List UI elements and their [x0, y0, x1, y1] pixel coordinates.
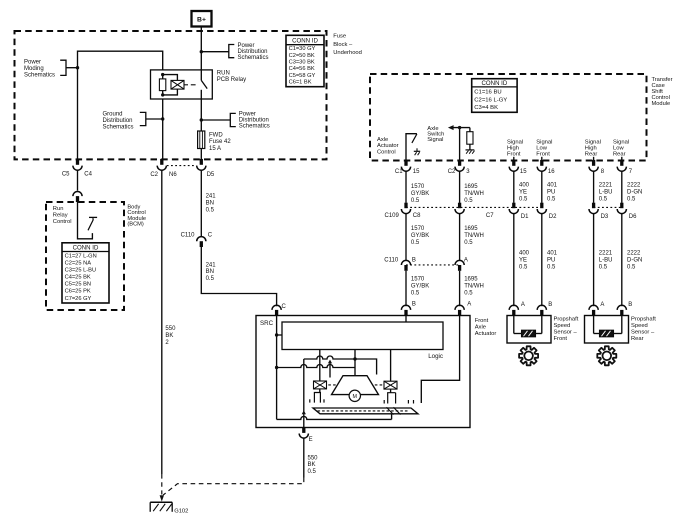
svg-text:1570: 1570	[411, 184, 425, 190]
label Signal Low Rear	[613, 140, 629, 158]
svg-text:Sensor –: Sensor –	[631, 330, 655, 336]
svg-text:0.5: 0.5	[411, 240, 420, 246]
contact stationary left pair	[310, 399, 324, 402]
svg-text:401: 401	[547, 251, 558, 257]
connector BCM entry	[73, 192, 82, 202]
position indicator bar contact track (dashed)	[318, 410, 410, 412]
fuse block - underhood dashed enclosure	[15, 31, 327, 159]
wire bar right segment to C return	[391, 414, 393, 420]
svg-text:B: B	[412, 302, 416, 308]
svg-text:Distribution: Distribution	[103, 118, 133, 124]
svg-text:1695: 1695	[464, 277, 478, 283]
svg-text:B: B	[412, 257, 416, 263]
connector C110 cavity A	[455, 257, 468, 270]
gear reluctor rear	[597, 346, 616, 365]
motor housing trapezoid	[332, 376, 379, 395]
svg-text:Speed: Speed	[554, 323, 571, 329]
svg-text:BK: BK	[308, 462, 316, 468]
coil relay winding (crossed box) with parallel branch	[163, 75, 184, 95]
switch contact right (movable)	[388, 393, 396, 404]
wire axle switch signal with arrow	[448, 125, 470, 160]
wire 1570 GY/BK segment 3	[405, 271, 407, 306]
wire 241 BN from D5	[200, 171, 202, 237]
svg-text:Rear: Rear	[613, 152, 626, 158]
wire position sensor wiper arm	[328, 360, 332, 378]
svg-text:0.5: 0.5	[547, 197, 556, 203]
label Front Axle Actuator	[475, 318, 497, 337]
wire 2222 D-GN segment 1	[621, 172, 623, 203]
connector D1 inline	[509, 203, 529, 220]
svg-text:BK: BK	[165, 333, 173, 339]
label Signal Low Front	[536, 140, 552, 158]
connector C110 cavity C	[181, 233, 213, 247]
node junction B+ / power distribution 1	[200, 50, 203, 53]
svg-text:Moding: Moding	[24, 66, 44, 72]
label wire 550 BK 2	[165, 326, 176, 346]
svg-text:B: B	[628, 302, 632, 308]
svg-text:C2=16 L-GY: C2=16 L-GY	[474, 97, 507, 103]
svg-text:C: C	[208, 233, 213, 239]
svg-text:C1=27 L-GN: C1=27 L-GN	[65, 253, 97, 259]
svg-text:D-GN: D-GN	[627, 190, 642, 196]
connector B front axle actuator	[401, 302, 416, 316]
svg-text:C2: C2	[150, 172, 158, 178]
relay coil feed junction top	[161, 73, 164, 76]
svg-text:D5: D5	[207, 172, 215, 178]
mechanical link right coil (dashed)	[375, 384, 383, 386]
label Axle Actuator Control	[377, 137, 399, 156]
svg-text:TN/WH: TN/WH	[464, 284, 484, 290]
coil left solenoid (crossed box)	[314, 381, 327, 389]
mechanical link coil to switch (dashed)	[184, 84, 196, 86]
svg-text:Front: Front	[475, 318, 489, 324]
svg-text:C3=30 BK: C3=30 BK	[289, 60, 315, 66]
contact stationary far right pair	[408, 400, 413, 404]
label wire 1570 GY/BK 0.5 (3)	[411, 277, 429, 297]
label Transfer Case Shift Control Module	[652, 77, 673, 107]
wire B stub to logic	[405, 316, 407, 323]
wire 241 BN to front axle actuator	[201, 247, 276, 306]
svg-text:L-BU: L-BU	[599, 190, 613, 196]
svg-text:Schematics: Schematics	[238, 55, 269, 61]
svg-text:Relay: Relay	[53, 212, 68, 218]
wire C internal vertical	[276, 316, 278, 420]
svg-text:0.5: 0.5	[464, 291, 473, 297]
wire 550 BK from E	[163, 438, 304, 495]
svg-text:241: 241	[206, 262, 217, 268]
connector D5 fuse block	[197, 159, 215, 178]
svg-text:400: 400	[519, 251, 530, 257]
wire right coil to contact	[390, 389, 392, 393]
svg-text:400: 400	[519, 183, 530, 189]
svg-text:C5: C5	[62, 172, 70, 178]
svg-text:C7=26 GY: C7=26 GY	[65, 296, 92, 302]
svg-text:FWD: FWD	[209, 133, 223, 139]
svg-text:Module: Module	[652, 101, 671, 107]
wire 1695 TN/WH segment 3	[459, 271, 461, 306]
wire left coil to contact	[319, 389, 321, 393]
svg-text:C1=30 GY: C1=30 GY	[289, 46, 316, 52]
label wire 2222 D-GN 0.5 (2)	[627, 251, 642, 271]
connector C5/C4 fuse block to BCM	[62, 159, 93, 178]
svg-text:Fuse: Fuse	[333, 34, 346, 40]
node junction center output / line A	[353, 357, 356, 360]
wire stub signal high front	[513, 157, 515, 160]
svg-text:L-BU: L-BU	[599, 258, 613, 264]
svg-text:0.5: 0.5	[627, 197, 636, 203]
svg-text:Rear: Rear	[585, 152, 598, 158]
svg-text:550: 550	[165, 326, 176, 332]
mechanical link left coil (dashed)	[328, 384, 337, 386]
svg-text:C110: C110	[384, 257, 399, 263]
connector C front axle actuator	[272, 304, 287, 316]
svg-text:Ground: Ground	[103, 112, 123, 118]
wire 550 BK 2 (C2/N6 to G102)	[161, 171, 163, 495]
label wire 2221 L-BU 0.5 (1)	[599, 183, 613, 203]
svg-text:TN/WH: TN/WH	[464, 233, 484, 239]
label wire 400 YE 0.5 (1)	[519, 183, 530, 203]
off-page reference Power Moding Schematics	[24, 60, 78, 79]
svg-text:Control: Control	[53, 219, 72, 225]
fuse FWD Fuse 42 15 A	[198, 99, 232, 159]
position indicator bar (parallelogram)	[313, 408, 418, 414]
svg-text:M: M	[353, 394, 358, 400]
wire C return bottom with crossover	[277, 416, 392, 419]
svg-text:B+: B+	[197, 17, 206, 24]
svg-text:Front: Front	[536, 152, 550, 158]
switch contact left (movable)	[314, 393, 320, 403]
wire 1695 TN/WH segment 2	[459, 213, 461, 260]
svg-text:E: E	[309, 437, 313, 443]
connector A front axle actuator	[455, 302, 471, 316]
off-page reference Ground Distribution Schematics	[103, 112, 163, 131]
switch axle actuator control driver	[406, 134, 420, 161]
wire stub signal high rear	[593, 157, 595, 160]
connector B propshaft front	[537, 302, 552, 316]
svg-text:1695: 1695	[464, 184, 478, 190]
svg-text:Propshaft: Propshaft	[554, 317, 579, 323]
svg-text:CONN ID: CONN ID	[73, 245, 99, 252]
wire logic output to right coil	[390, 350, 392, 382]
ground internal TCCM	[465, 150, 474, 154]
svg-text:0.5: 0.5	[206, 208, 215, 214]
svg-text:Power: Power	[24, 60, 41, 66]
svg-text:C4=25 BK: C4=25 BK	[65, 275, 91, 281]
connector C1 pin 15 TCCM	[395, 160, 420, 175]
svg-text:Schematics: Schematics	[24, 73, 55, 79]
svg-text:0.5: 0.5	[627, 264, 636, 270]
wire dotted link C110 row	[406, 264, 460, 266]
connector E front axle actuator	[299, 428, 312, 443]
wire dotted link N6 to D5	[167, 165, 197, 167]
wire 2222 D-GN segment 2	[621, 213, 623, 306]
off-page reference Power Distribution Schematics (top)	[201, 43, 268, 61]
svg-text:0.5: 0.5	[519, 197, 528, 203]
svg-text:2222: 2222	[627, 251, 641, 257]
svg-text:Axle: Axle	[475, 324, 486, 330]
svg-text:550: 550	[308, 455, 319, 461]
label wire 2221 L-BU 0.5 (2)	[599, 251, 613, 271]
node relay coil junction bottom	[161, 93, 164, 96]
svg-text:(BCM): (BCM)	[127, 221, 144, 227]
svg-text:2221: 2221	[599, 183, 613, 189]
svg-text:C7: C7	[486, 213, 494, 219]
svg-text:C2=25 NA: C2=25 NA	[65, 260, 92, 266]
label Axle Switch Signal	[427, 126, 444, 143]
svg-text:D1: D1	[521, 214, 529, 220]
node junction C wire to logic	[275, 333, 282, 336]
connector D6 inline	[617, 203, 637, 220]
label Signal High Front	[507, 140, 523, 158]
wire A internal path to position contact	[421, 316, 459, 404]
svg-text:BN: BN	[206, 269, 214, 275]
relay RUN PCB Relay outline	[151, 70, 247, 99]
svg-text:15: 15	[413, 169, 420, 175]
svg-text:CONN ID: CONN ID	[292, 38, 318, 45]
motor M front axle actuator	[349, 390, 360, 401]
resistor axle switch pull-up	[467, 128, 473, 150]
svg-text:241: 241	[206, 194, 217, 200]
resistor relay coil suppression	[159, 75, 165, 95]
wire 1570 GY/BK segment 1	[405, 172, 407, 203]
wire B+ vertical into relay switch	[200, 27, 202, 81]
svg-text:C4=56 BK: C4=56 BK	[289, 66, 315, 72]
connector B propshaft rear	[617, 302, 632, 316]
label wire 241 BN 0.5 (upper)	[206, 194, 217, 214]
svg-text:0.5: 0.5	[411, 198, 420, 204]
svg-text:1570: 1570	[411, 226, 425, 232]
wire 400 YE segment 1	[513, 172, 515, 203]
svg-text:15 A: 15 A	[209, 146, 221, 152]
node junction axle switch signal	[458, 126, 461, 129]
wire dotted link D3-D6 row	[594, 206, 622, 208]
svg-text:1695: 1695	[464, 226, 478, 232]
svg-text:C2: C2	[448, 169, 456, 175]
svg-text:0.5: 0.5	[519, 264, 528, 270]
node junction run-relay wire / power moding	[76, 66, 79, 69]
front axle actuator box	[256, 316, 470, 428]
wire run relay control loop (left vertical, top horizontal, down to relay coil)	[78, 51, 163, 159]
svg-text:PCB Relay: PCB Relay	[217, 77, 246, 83]
connector pin 16 TCCM	[537, 160, 555, 175]
connector pin 8 TCCM	[589, 160, 605, 175]
label wire 1695 TN/WH 0.5 (3)	[464, 277, 484, 297]
svg-text:GY/BK: GY/BK	[411, 191, 429, 197]
svg-text:C2=50 BK: C2=50 BK	[289, 53, 315, 59]
svg-text:N6: N6	[169, 172, 177, 178]
propshaft speed sensor front box	[507, 316, 551, 344]
label wire 401 PU 0.5 (2)	[547, 251, 558, 271]
svg-text:C4: C4	[84, 172, 92, 178]
coil pickup front sensor	[514, 316, 542, 337]
svg-text:0.5: 0.5	[411, 291, 420, 297]
connector C110 cavity B	[384, 257, 416, 270]
node junction B+ / power distribution 2	[200, 118, 203, 121]
svg-text:YE: YE	[519, 190, 527, 196]
connector C2/N6 fuse block	[150, 159, 177, 178]
svg-text:Control: Control	[377, 150, 396, 156]
svg-text:0.5: 0.5	[464, 240, 473, 246]
svg-text:1570: 1570	[411, 277, 425, 283]
connector pin 7 TCCM	[617, 160, 633, 175]
label Signal High Rear	[585, 140, 601, 158]
svg-text:Sensor –: Sensor –	[554, 330, 578, 336]
label wire 1570 GY/BK 0.5 (1)	[411, 184, 429, 204]
body control module dashed enclosure	[46, 202, 124, 310]
gear reluctor front	[519, 346, 538, 365]
svg-text:Run: Run	[53, 206, 64, 212]
svg-text:0.5: 0.5	[308, 469, 317, 475]
svg-text:Axle: Axle	[377, 137, 388, 143]
svg-text:C5=25 BN: C5=25 BN	[65, 282, 91, 288]
svg-text:C6=25 PK: C6=25 PK	[65, 289, 91, 295]
label wire 1695 TN/WH 0.5 (2)	[464, 226, 484, 246]
svg-text:D2: D2	[549, 214, 557, 220]
svg-text:SRC: SRC	[260, 320, 274, 327]
logic module box	[282, 322, 443, 350]
svg-text:0.5: 0.5	[464, 198, 473, 204]
label wire 400 YE 0.5 (2)	[519, 251, 530, 271]
svg-text:Block –: Block –	[333, 42, 353, 48]
wire 2221 L-BU segment 1	[593, 172, 595, 203]
svg-text:2222: 2222	[627, 183, 641, 189]
table CONN ID fuse block	[286, 35, 324, 86]
wire 401 PU segment 1	[541, 172, 543, 203]
label Logic	[428, 353, 443, 360]
svg-text:Logic: Logic	[428, 353, 443, 360]
svg-text:CONN ID: CONN ID	[482, 80, 508, 87]
propshaft speed sensor rear box	[585, 316, 629, 344]
wire E wiper vertical	[302, 359, 306, 428]
svg-text:15: 15	[520, 169, 527, 175]
label wire 401 PU 0.5 (1)	[547, 183, 558, 203]
svg-text:16: 16	[548, 169, 555, 175]
svg-text:C110: C110	[181, 233, 196, 239]
node junction C wire to motor feed	[275, 366, 278, 369]
transfer case shift control module dashed enclosure	[370, 74, 647, 161]
connector C2 pin 3 TCCM	[448, 160, 470, 175]
wire 2221 L-BU segment 2	[593, 213, 595, 306]
svg-text:Actuator: Actuator	[475, 331, 497, 337]
svg-text:0.5: 0.5	[599, 197, 608, 203]
svg-text:GY/BK: GY/BK	[411, 233, 429, 239]
svg-text:0.5: 0.5	[547, 264, 556, 270]
wire arrow into ground	[160, 495, 164, 501]
wire logic output center	[354, 350, 356, 376]
connector C109 cavity C7	[455, 203, 494, 220]
svg-text:RUN: RUN	[217, 71, 230, 77]
svg-text:A: A	[464, 257, 468, 263]
connector D2 inline	[537, 203, 557, 220]
svg-text:Schematics: Schematics	[103, 125, 134, 131]
svg-text:0.5: 0.5	[599, 264, 608, 270]
wire line B (motor feed from C)	[277, 365, 355, 368]
svg-text:Underhood: Underhood	[333, 50, 362, 56]
svg-text:A: A	[521, 302, 525, 308]
contact stationary right	[383, 400, 385, 404]
ground G102	[150, 502, 188, 514]
connector A propshaft front	[509, 302, 525, 316]
switch relay contacts	[201, 80, 207, 99]
svg-text:D-GN: D-GN	[627, 258, 642, 264]
connector D3 inline	[589, 203, 609, 220]
svg-text:C1: C1	[395, 169, 403, 175]
wire 1695 TN/WH segment 1	[459, 172, 461, 203]
wire stub signal low rear	[621, 157, 623, 160]
label wire 1695 TN/WH 0.5 (1)	[464, 184, 484, 204]
connector A propshaft rear	[589, 302, 604, 316]
label Fuse Block - Underhood	[333, 34, 362, 57]
svg-text:401: 401	[547, 183, 558, 189]
wire relay coil to C2 connector	[162, 99, 164, 159]
off-page reference Power Distribution Schematics (lower)	[201, 112, 270, 130]
wire 401 PU segment 2	[541, 213, 543, 306]
svg-text:PU: PU	[547, 190, 555, 196]
svg-text:Propshaft: Propshaft	[631, 317, 656, 323]
label wire 2222 D-GN 0.5 (1)	[627, 183, 642, 203]
table CONN ID TCCM	[472, 79, 517, 113]
coil pickup rear sensor	[594, 316, 622, 337]
svg-text:BN: BN	[206, 201, 214, 207]
svg-text:A: A	[467, 302, 471, 308]
switch run relay driver in BCM	[78, 202, 98, 239]
svg-text:Schematics: Schematics	[239, 124, 270, 130]
svg-text:D6: D6	[629, 214, 637, 220]
label wire 550 BK 0.5	[308, 455, 319, 475]
svg-text:C3=4 BK: C3=4 BK	[474, 105, 498, 111]
label Run Relay Control	[53, 206, 72, 225]
svg-text:Speed: Speed	[631, 323, 648, 329]
svg-text:Signal: Signal	[427, 137, 443, 143]
svg-text:TN/WH: TN/WH	[464, 191, 484, 197]
svg-text:YE: YE	[519, 258, 527, 264]
svg-text:GY/BK: GY/BK	[411, 284, 429, 290]
svg-text:C6=1 BK: C6=1 BK	[289, 80, 312, 86]
label Propshaft Speed Sensor Rear	[631, 317, 656, 343]
svg-text:PU: PU	[547, 258, 555, 264]
svg-text:0.5: 0.5	[206, 276, 215, 282]
svg-text:G102: G102	[174, 509, 188, 515]
svg-text:Front: Front	[507, 152, 521, 158]
wire line A (switch commons)	[304, 356, 377, 375]
svg-text:A: A	[600, 302, 604, 308]
label wire 241 BN 0.5 (lower)	[206, 262, 217, 282]
connector C109 cavity C8	[385, 203, 422, 220]
node junction coil wire / ground distribution	[161, 117, 164, 120]
label Body Control Module (BCM)	[127, 205, 146, 228]
wire dotted link C109 row	[406, 206, 542, 208]
wire 1570 GY/BK segment 2	[405, 213, 407, 260]
wire stub signal low front	[541, 157, 543, 160]
coil right solenoid (crossed box)	[384, 381, 397, 389]
svg-text:C3=25 L-BU: C3=25 L-BU	[65, 268, 96, 274]
svg-text:Actuator: Actuator	[377, 143, 399, 149]
wire C4 to BCM	[77, 171, 79, 191]
label wire 1570 GY/BK 0.5 (2)	[411, 226, 429, 246]
svg-text:2221: 2221	[599, 251, 613, 257]
connector pin 15 TCCM	[509, 160, 527, 175]
svg-text:C109: C109	[385, 213, 400, 219]
B+ terminal	[192, 11, 212, 27]
svg-text:Front: Front	[554, 336, 568, 342]
svg-text:D3: D3	[601, 214, 609, 220]
table CONN ID BCM	[62, 243, 109, 303]
svg-text:C1=16 BU: C1=16 BU	[474, 90, 501, 96]
svg-text:Fuse 42: Fuse 42	[209, 139, 231, 145]
position indicator bar break	[387, 407, 401, 414]
wire 400 YE segment 2	[513, 213, 515, 306]
svg-text:C5=58 GY: C5=58 GY	[289, 73, 316, 79]
